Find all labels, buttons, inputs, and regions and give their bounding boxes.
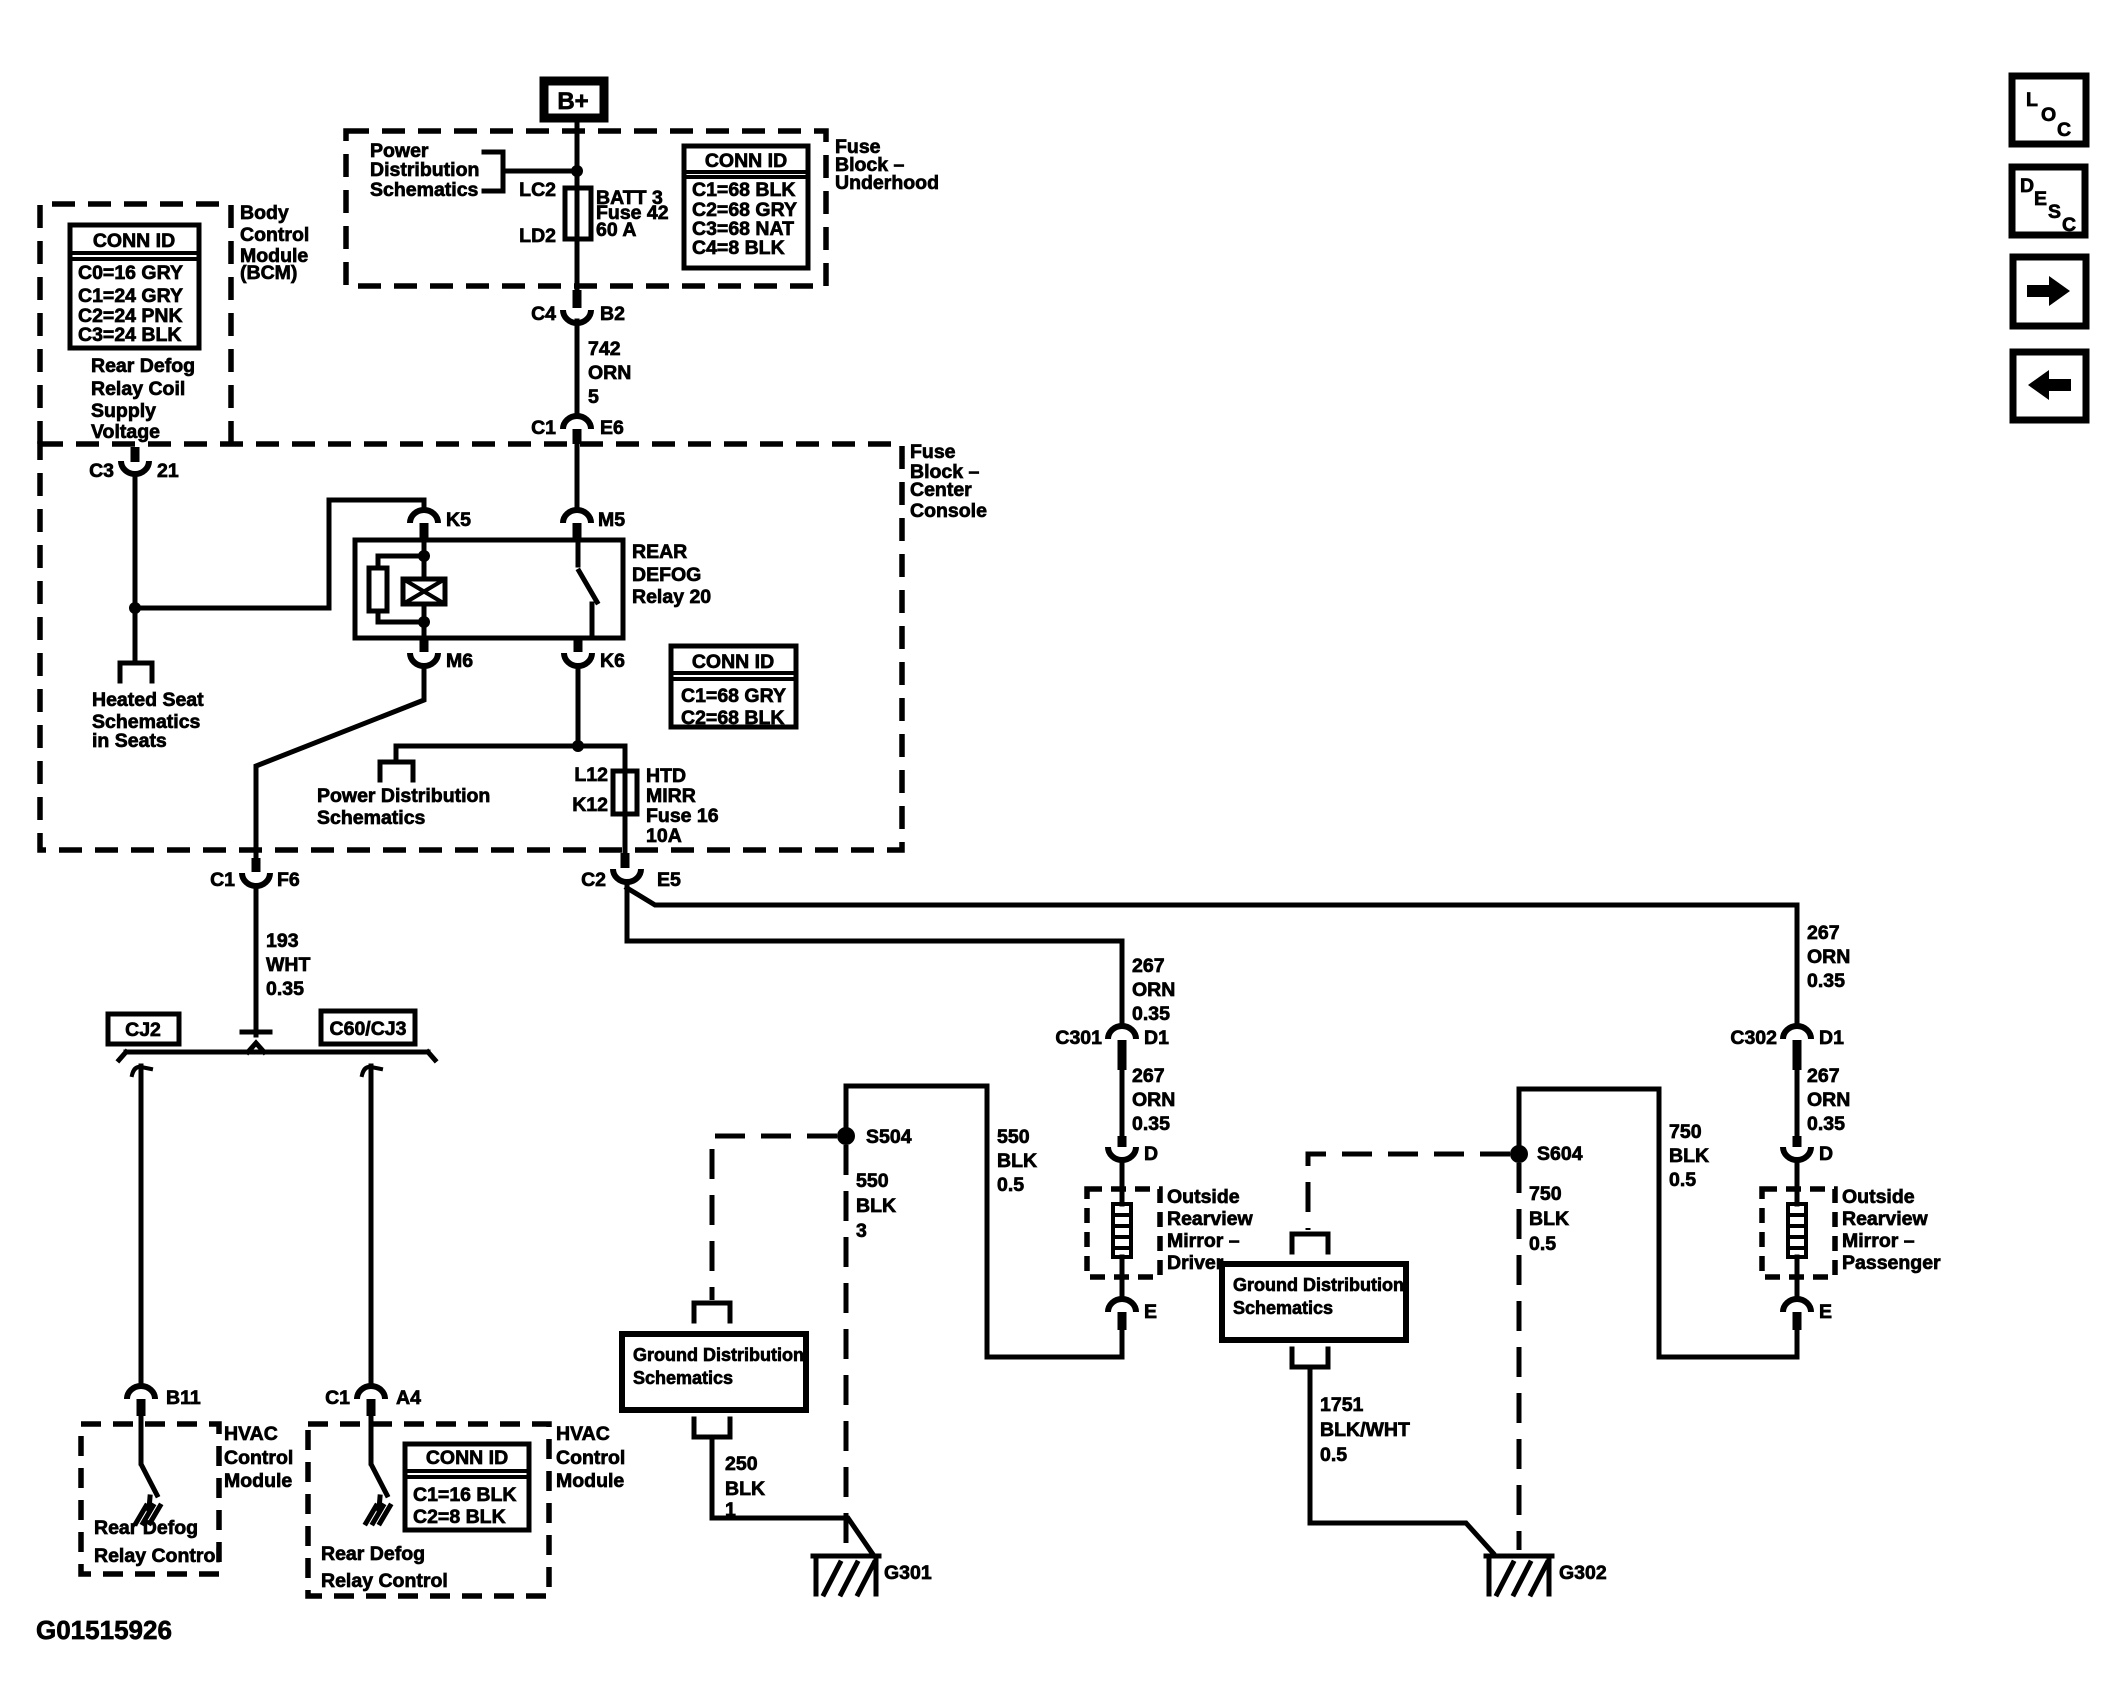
svg-text:D: D	[2020, 175, 2034, 197]
svg-text:Outside: Outside	[1842, 1186, 1915, 1208]
svg-text:HTD: HTD	[646, 765, 686, 787]
svg-text:C4=8 BLK: C4=8 BLK	[692, 237, 785, 259]
svg-text:750: 750	[1669, 1121, 1702, 1143]
svg-text:Rearview: Rearview	[1167, 1208, 1253, 1230]
svg-text:LC2: LC2	[519, 179, 556, 201]
svg-text:BLK: BLK	[856, 1195, 896, 1217]
svg-text:CONN ID: CONN ID	[93, 230, 175, 252]
svg-text:BLK: BLK	[1529, 1208, 1569, 1230]
svg-text:L: L	[2026, 89, 2038, 111]
svg-text:C1=16 BLK: C1=16 BLK	[413, 1484, 517, 1506]
svg-text:CONN ID: CONN ID	[705, 150, 787, 172]
svg-text:0.5: 0.5	[997, 1174, 1024, 1196]
svg-text:Rearview: Rearview	[1842, 1208, 1928, 1230]
svg-text:B2: B2	[600, 303, 625, 325]
svg-text:Supply: Supply	[91, 400, 156, 422]
svg-text:Schematics: Schematics	[1233, 1298, 1333, 1318]
svg-text:K12: K12	[572, 794, 608, 816]
svg-text:Fuse: Fuse	[910, 441, 956, 463]
svg-text:E5: E5	[657, 869, 681, 891]
svg-text:Rear Defog: Rear Defog	[321, 1543, 425, 1565]
svg-text:0.35: 0.35	[1807, 970, 1845, 992]
svg-text:in Seats: in Seats	[92, 730, 167, 752]
svg-text:HVAC: HVAC	[224, 1423, 278, 1445]
svg-text:S604: S604	[1537, 1143, 1583, 1165]
svg-text:ORN: ORN	[1807, 1089, 1850, 1111]
svg-text:Rear Defog: Rear Defog	[91, 355, 195, 377]
svg-text:0.35: 0.35	[1132, 1113, 1170, 1135]
svg-text:ORN: ORN	[1807, 946, 1850, 968]
svg-text:S504: S504	[866, 1126, 912, 1148]
svg-text:D: D	[1819, 1143, 1833, 1165]
svg-text:Mirror –: Mirror –	[1842, 1230, 1915, 1252]
svg-text:E: E	[2034, 188, 2047, 210]
svg-text:G301: G301	[884, 1562, 932, 1584]
svg-text:5: 5	[588, 386, 599, 408]
svg-text:Relay Control: Relay Control	[94, 1545, 221, 1567]
svg-text:C: C	[2062, 214, 2076, 236]
svg-text:Console: Console	[910, 500, 987, 522]
svg-text:267: 267	[1132, 955, 1165, 977]
svg-text:Schematics: Schematics	[633, 1368, 733, 1388]
svg-text:BLK: BLK	[725, 1478, 765, 1500]
svg-text:B11: B11	[166, 1387, 201, 1409]
svg-text:C3: C3	[89, 460, 114, 482]
svg-text:21: 21	[157, 460, 179, 482]
svg-text:S: S	[2048, 201, 2061, 223]
svg-text:C2=8 BLK: C2=8 BLK	[413, 1506, 506, 1528]
svg-text:B+: B+	[557, 88, 588, 115]
svg-text:0.5: 0.5	[1669, 1169, 1696, 1191]
svg-text:Distribution: Distribution	[370, 159, 479, 181]
svg-text:C301: C301	[1055, 1027, 1102, 1049]
svg-text:Heated Seat: Heated Seat	[92, 689, 204, 711]
svg-text:F6: F6	[277, 869, 300, 891]
svg-text:BLK/WHT: BLK/WHT	[1320, 1419, 1410, 1441]
svg-text:Relay 20: Relay 20	[632, 586, 711, 608]
svg-text:HVAC: HVAC	[556, 1423, 610, 1445]
svg-text:Schematics: Schematics	[317, 807, 426, 829]
svg-text:C1=24 GRY: C1=24 GRY	[78, 285, 183, 307]
svg-text:1751: 1751	[1320, 1394, 1364, 1416]
svg-text:L12: L12	[574, 764, 608, 786]
svg-text:C1: C1	[325, 1387, 350, 1409]
svg-text:G302: G302	[1559, 1562, 1607, 1584]
svg-text:K5: K5	[446, 509, 471, 531]
svg-text:267: 267	[1807, 922, 1840, 944]
svg-text:E6: E6	[600, 417, 624, 439]
svg-text:Voltage: Voltage	[91, 421, 160, 443]
svg-text:C1=68 BLK: C1=68 BLK	[692, 179, 796, 201]
svg-text:60 A: 60 A	[596, 219, 636, 241]
svg-text:193: 193	[266, 930, 299, 952]
svg-text:G01515926: G01515926	[36, 1615, 172, 1645]
svg-text:E: E	[1819, 1301, 1832, 1323]
svg-text:D1: D1	[1819, 1027, 1844, 1049]
svg-text:Ground Distribution: Ground Distribution	[633, 1345, 804, 1365]
svg-text:C1: C1	[531, 417, 556, 439]
svg-text:ORN: ORN	[1132, 979, 1175, 1001]
svg-text:D1: D1	[1144, 1027, 1169, 1049]
svg-text:C1: C1	[210, 869, 235, 891]
svg-text:C1=68 GRY: C1=68 GRY	[681, 685, 786, 707]
svg-text:0.35: 0.35	[266, 978, 304, 1000]
svg-text:C4: C4	[531, 303, 556, 325]
svg-text:0.5: 0.5	[1529, 1233, 1556, 1255]
svg-text:Control: Control	[556, 1447, 625, 1469]
svg-text:C2: C2	[581, 869, 606, 891]
svg-text:Ground Distribution: Ground Distribution	[1233, 1275, 1404, 1295]
svg-text:DEFOG: DEFOG	[632, 564, 701, 586]
svg-text:C60/CJ3: C60/CJ3	[330, 1018, 407, 1040]
svg-text:MIRR: MIRR	[646, 785, 696, 807]
svg-text:550: 550	[997, 1126, 1030, 1148]
svg-text:ORN: ORN	[588, 362, 631, 384]
svg-text:M6: M6	[446, 650, 473, 672]
svg-text:E: E	[1144, 1301, 1157, 1323]
svg-text:Driver: Driver	[1167, 1252, 1224, 1274]
svg-text:Outside: Outside	[1167, 1186, 1240, 1208]
svg-text:C: C	[2057, 119, 2071, 141]
svg-text:Relay Control: Relay Control	[321, 1570, 448, 1592]
svg-text:WHT: WHT	[266, 954, 310, 976]
svg-text:A4: A4	[396, 1387, 421, 1409]
svg-text:Module: Module	[556, 1470, 624, 1492]
svg-text:CJ2: CJ2	[125, 1019, 161, 1041]
svg-text:D: D	[1144, 1143, 1158, 1165]
svg-text:0.35: 0.35	[1132, 1003, 1170, 1025]
svg-text:Control: Control	[240, 224, 309, 246]
svg-text:M5: M5	[598, 509, 625, 531]
svg-text:Body: Body	[240, 202, 289, 224]
svg-text:1: 1	[725, 1499, 736, 1521]
svg-text:C0=16 GRY: C0=16 GRY	[78, 262, 183, 284]
svg-text:(BCM): (BCM)	[240, 262, 297, 284]
svg-text:O: O	[2041, 104, 2056, 126]
svg-text:267: 267	[1132, 1065, 1165, 1087]
svg-text:0.35: 0.35	[1807, 1113, 1845, 1135]
svg-text:3: 3	[856, 1220, 867, 1242]
svg-text:0.5: 0.5	[1320, 1444, 1347, 1466]
svg-text:267: 267	[1807, 1065, 1840, 1087]
svg-text:REAR: REAR	[632, 541, 687, 563]
svg-text:Power Distribution: Power Distribution	[317, 785, 490, 807]
svg-text:Center: Center	[910, 479, 972, 501]
svg-text:Mirror –: Mirror –	[1167, 1230, 1240, 1252]
svg-text:Module: Module	[224, 1470, 292, 1492]
svg-text:550: 550	[856, 1170, 889, 1192]
svg-text:ORN: ORN	[1132, 1089, 1175, 1111]
svg-text:BLK: BLK	[1669, 1145, 1709, 1167]
svg-text:C302: C302	[1730, 1027, 1777, 1049]
svg-text:10A: 10A	[646, 825, 682, 847]
svg-text:LD2: LD2	[519, 225, 556, 247]
svg-text:Underhood: Underhood	[835, 172, 939, 194]
svg-text:Relay Coil: Relay Coil	[91, 378, 185, 400]
svg-text:Schematics: Schematics	[370, 179, 479, 201]
svg-text:250: 250	[725, 1453, 758, 1475]
svg-text:742: 742	[588, 338, 621, 360]
svg-text:Control: Control	[224, 1447, 293, 1469]
svg-text:Passenger: Passenger	[1842, 1252, 1941, 1274]
svg-text:C2=68 BLK: C2=68 BLK	[681, 707, 785, 729]
svg-text:CONN ID: CONN ID	[692, 651, 774, 673]
svg-text:K6: K6	[600, 650, 625, 672]
svg-text:750: 750	[1529, 1183, 1562, 1205]
svg-text:Fuse 16: Fuse 16	[646, 805, 719, 827]
svg-text:CONN ID: CONN ID	[426, 1447, 508, 1469]
svg-text:BLK: BLK	[997, 1150, 1037, 1172]
svg-text:C3=24 BLK: C3=24 BLK	[78, 324, 182, 346]
svg-text:Rear Defog: Rear Defog	[94, 1517, 198, 1539]
